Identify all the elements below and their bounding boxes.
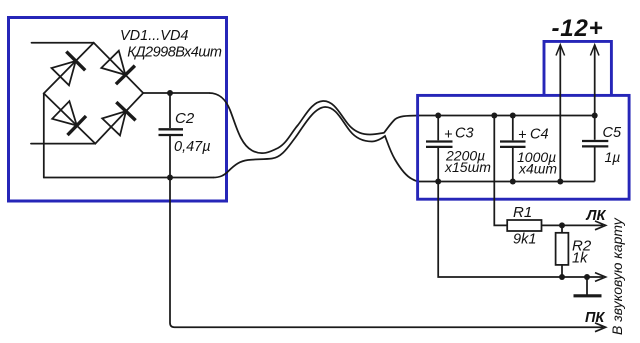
- node junction C2 top: [167, 90, 173, 96]
- wire R1 feed line: [494, 116, 507, 226]
- wire AC input bottom: [31, 143, 95, 145]
- node C5 top: [592, 113, 598, 119]
- node R1 takeoff: [491, 113, 497, 119]
- svg-text:1µ: 1µ: [605, 149, 621, 165]
- node ground symbol tap: [584, 274, 590, 280]
- wire PK line to sound card: [175, 326, 604, 328]
- diode VD3: [52, 101, 86, 135]
- node C3 bottom: [435, 179, 441, 185]
- filter block border (right blue box): [418, 95, 629, 199]
- wire ground line from C3 bottom: [438, 182, 603, 278]
- svg-text:C4: C4: [530, 126, 549, 142]
- capacitor C4: [500, 116, 526, 182]
- wire bridge diamond outline: [44, 43, 143, 144]
- diode VD4: [102, 102, 135, 135]
- capacitor C2: [159, 93, 184, 178]
- svg-text:ЛК: ЛК: [586, 208, 607, 224]
- wire -12 right arrow line: [594, 46, 596, 116]
- wire bridge plus to C2 top: [143, 92, 209, 94]
- arrow -12 left: [556, 45, 565, 56]
- svg-text:КД2998Вх4шт: КД2998Вх4шт: [127, 45, 222, 61]
- rectifier block border (left blue box): [9, 18, 227, 202]
- capacitor C5: [582, 116, 608, 182]
- svg-text:х4шт: х4шт: [518, 160, 557, 176]
- resistor R1: [507, 220, 541, 231]
- power notch outline: [544, 41, 611, 95]
- node C4 top: [510, 113, 516, 119]
- ground: [574, 277, 602, 296]
- cable twisted pair bottom wire: [213, 107, 419, 182]
- wire -12 left arrow line: [559, 46, 561, 182]
- cable twisted pair top wire: [209, 93, 419, 153]
- node R2 bottom: [559, 274, 565, 280]
- diode VD2: [101, 51, 135, 84]
- svg-text:C3: C3: [455, 126, 474, 142]
- capacitor C3: [426, 116, 453, 182]
- wire AC input top: [32, 42, 94, 44]
- svg-text:C5: C5: [603, 125, 622, 141]
- node ground rail tap: [557, 179, 563, 185]
- node LK / R2 junction: [559, 222, 565, 228]
- wire bottom rail: [419, 181, 595, 183]
- arrow LK: [595, 221, 606, 230]
- wire R2 bottom lead: [561, 265, 563, 277]
- svg-text:ПК: ПК: [585, 310, 605, 326]
- svg-text:1k: 1k: [572, 250, 588, 266]
- svg-text:х15шт: х15шт: [444, 159, 491, 175]
- wire R1 to LK arrow: [542, 224, 604, 226]
- wire C2 bottom down to PK line: [170, 178, 175, 328]
- resistor R2: [556, 233, 569, 265]
- wire top rail: [419, 115, 595, 117]
- svg-text:+: +: [444, 127, 452, 143]
- svg-text:0,47µ: 0,47µ: [174, 139, 211, 155]
- svg-text:9k1: 9k1: [513, 232, 536, 248]
- svg-text:VD1...VD4: VD1...VD4: [120, 28, 189, 44]
- svg-text:-12+: -12+: [552, 15, 604, 42]
- wire bottom rail left box: [44, 177, 213, 179]
- diode VD1: [52, 52, 86, 86]
- arrow ground line: [595, 273, 606, 282]
- wire R2 top lead: [561, 225, 563, 232]
- node junction C2 bottom: [167, 175, 173, 181]
- arrow -12 right: [590, 45, 599, 56]
- arrow PK: [595, 323, 606, 332]
- wire bridge minus vertical: [43, 93, 45, 177]
- svg-text:R1: R1: [513, 204, 532, 221]
- svg-text:C2: C2: [175, 110, 195, 127]
- svg-text:+: +: [518, 127, 526, 143]
- node C3 top: [435, 113, 441, 119]
- node C4 bottom: [510, 179, 516, 185]
- svg-text:В звуковую карту: В звуковую карту: [609, 217, 625, 335]
